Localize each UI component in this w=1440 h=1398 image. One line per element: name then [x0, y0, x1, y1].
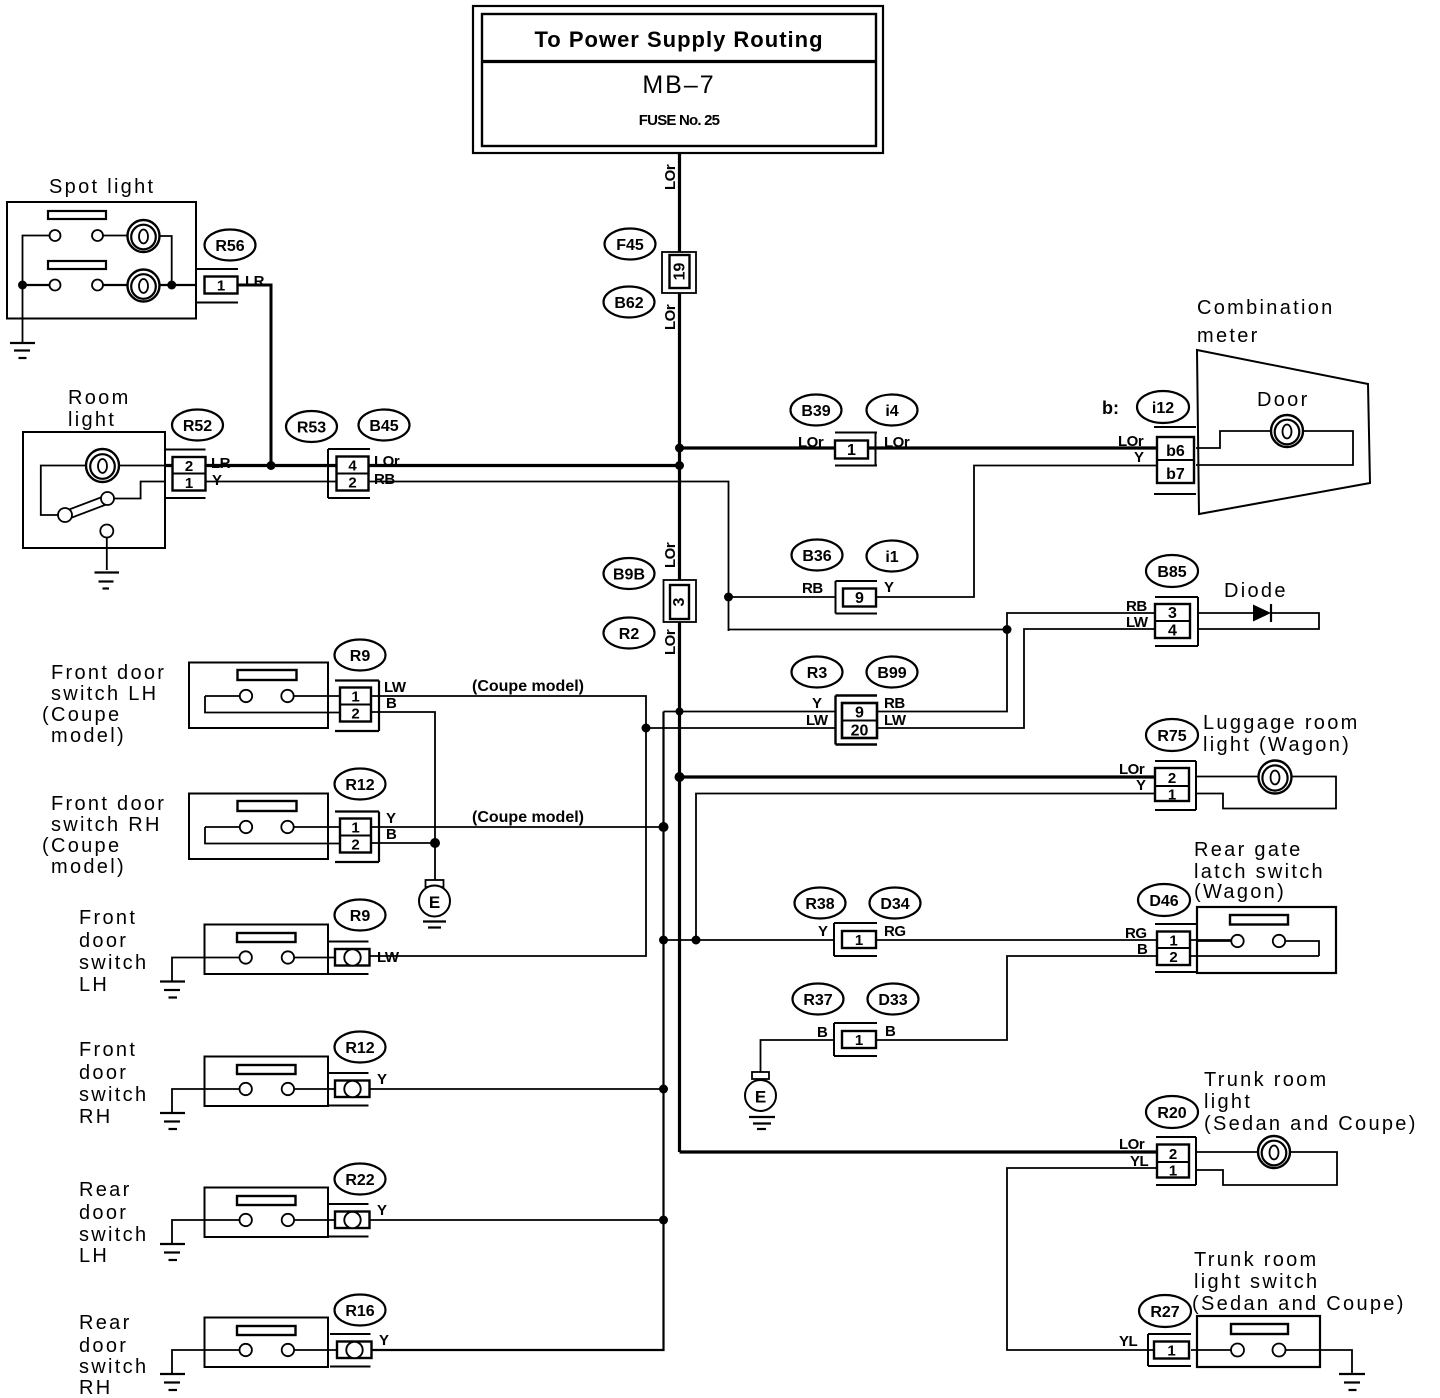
svg-text:LOr: LOr [1119, 761, 1145, 778]
svg-text:RB: RB [374, 471, 395, 488]
svg-text:FUSE No. 25: FUSE No. 25 [639, 112, 720, 129]
svg-text:Y: Y [818, 923, 828, 940]
connector oval D34 [870, 888, 921, 919]
ground symbol front RH [160, 1113, 185, 1129]
wire LOr thick branch to luggage room light R75 [680, 775, 1158, 778]
wire door lamp loop inside meter [1196, 431, 1353, 465]
connector R27 1 [1148, 1334, 1191, 1366]
svg-text:(Sedan and Coupe): (Sedan and Coupe) [1204, 1113, 1418, 1135]
label Front door switch RH (Coupe model) [42, 793, 166, 878]
connector oval R37 [793, 984, 844, 1015]
svg-text:light: light [1204, 1091, 1252, 1113]
connector oval i1 [867, 541, 918, 572]
svg-text:LW: LW [377, 949, 400, 966]
svg-text:RG: RG [884, 923, 906, 940]
svg-text:B: B [386, 695, 397, 712]
svg-text:(Coupe model): (Coupe model) [472, 809, 584, 826]
svg-text:B: B [386, 826, 397, 843]
connector oval B62 [604, 287, 655, 318]
connector oval R20 [1146, 1096, 1198, 1128]
svg-text:(Coupe: (Coupe [42, 835, 121, 857]
svg-text:(Wagon): (Wagon) [1194, 881, 1286, 903]
svg-text:Front door: Front door [51, 793, 166, 815]
svg-text:B99: B99 [877, 665, 906, 682]
svg-text:2: 2 [351, 837, 359, 854]
wire spot light lower row [23, 284, 197, 286]
wire B from R37/D33 to ground E [761, 1040, 836, 1072]
connector oval R27 [1139, 1295, 1191, 1327]
connector oval B45 [359, 410, 410, 441]
svg-text:i1: i1 [885, 549, 898, 566]
svg-text:2: 2 [1169, 1146, 1177, 1163]
svg-text:Door: Door [1257, 389, 1310, 411]
svg-text:20: 20 [851, 723, 869, 740]
junction node Y riser at lower RH row [659, 1085, 668, 1094]
svg-text:E: E [755, 1088, 766, 1107]
ground symbol front LH [160, 982, 185, 998]
connector oval B39 [791, 395, 842, 426]
connector oval R56 [205, 230, 256, 261]
wire B from D46 pin 2 to R37/D33 connector [877, 956, 1319, 1040]
svg-text:LOr: LOr [798, 434, 824, 451]
trunk room light switch box [1191, 1316, 1352, 1374]
ground symbol spot light [10, 343, 35, 358]
junction node spot light right [167, 281, 176, 290]
svg-text:1: 1 [351, 689, 359, 706]
svg-text:Y: Y [1136, 777, 1146, 794]
ground symbol rear RH [160, 1374, 185, 1390]
svg-text:Rear: Rear [79, 1312, 132, 1334]
junction node LW at pin 20 wire [642, 724, 651, 733]
svg-text:Spot light: Spot light [49, 176, 155, 198]
junction node Y branch riser at rear gate row [692, 936, 701, 945]
junction node RB at B85 riser [1003, 625, 1012, 634]
svg-text:YL: YL [1119, 1333, 1138, 1350]
connector R22 single pin [328, 1204, 370, 1237]
wire LOr thick branch left to room light [165, 464, 680, 467]
junction node trunk at Y wire crossing [676, 708, 684, 716]
svg-text:(Coupe model): (Coupe model) [472, 678, 584, 695]
svg-text:1: 1 [1169, 1163, 1177, 1180]
svg-text:Y: Y [386, 810, 396, 827]
svg-text:3: 3 [671, 597, 688, 606]
wire RB from R3/B99 pin 9 up to RB node [877, 630, 1007, 712]
svg-text:B: B [1137, 941, 1148, 958]
svg-text:switch: switch [79, 1356, 148, 1378]
junction node Y riser at rear gate row [659, 936, 668, 945]
svg-text:Y: Y [812, 695, 822, 712]
svg-text:R38: R38 [805, 896, 834, 913]
svg-text:door: door [79, 1202, 128, 1224]
svg-text:R53: R53 [297, 420, 326, 437]
svg-text:1: 1 [217, 278, 225, 295]
wire ground lead front LH [172, 958, 205, 982]
svg-text:2: 2 [185, 458, 193, 475]
svg-text:F45: F45 [616, 237, 644, 254]
svg-text:YL: YL [1130, 1153, 1149, 1170]
wire B coupe LH to ground riser [371, 712, 435, 843]
wire LOr thick branch to trunk room light R20 [680, 1150, 1158, 1153]
connector oval B99 [867, 657, 918, 688]
wire B coupe RH joins riser [371, 843, 435, 880]
label Rear door switch RH [79, 1312, 148, 1398]
rear door switch LH box [205, 1188, 337, 1238]
wire Y branch riser to luggage room light R75 pin 1 [696, 794, 1157, 941]
svg-text:b:: b: [1102, 398, 1119, 418]
ground E for R37/D33 [745, 1072, 776, 1129]
ground E coupe door switches [419, 880, 450, 928]
lamp spot light lower [128, 270, 160, 302]
svg-text:R20: R20 [1157, 1105, 1186, 1122]
svg-text:switch: switch [79, 1084, 148, 1106]
junction node RB at i1 connector [724, 593, 733, 602]
svg-text:Y: Y [884, 579, 894, 596]
svg-text:Room: Room [68, 387, 131, 409]
connector B85 diode pins 3/4 [1155, 597, 1198, 646]
wire Y riser connecting door switches [372, 712, 664, 1351]
lamp spot light upper [128, 220, 160, 252]
svg-text:Luggage room: Luggage room [1203, 712, 1360, 734]
label Rear gate latch switch (Wagon) [1194, 839, 1325, 903]
connector R12 single pin [328, 1073, 370, 1106]
svg-text:B85: B85 [1157, 564, 1186, 581]
combination meter outline [1197, 350, 1370, 514]
svg-text:Y: Y [377, 1202, 387, 1219]
svg-text:b6: b6 [1166, 443, 1185, 460]
svg-text:model): model) [51, 725, 126, 747]
connector B98/R2 3 on trunk [664, 580, 697, 622]
lamp room light [86, 449, 119, 482]
svg-text:(Coupe: (Coupe [42, 704, 121, 726]
diode symbol and loop back to pin 4 [1198, 604, 1319, 629]
connector oval R53 [286, 411, 337, 442]
label Front door switch LH (Coupe model) [42, 662, 166, 747]
svg-text:LW: LW [384, 679, 407, 696]
junction node B coupe wires [430, 838, 440, 848]
svg-text:MB–7: MB–7 [642, 71, 715, 99]
connector B39/i4 1 [835, 433, 877, 466]
connector oval R52 [172, 410, 223, 441]
wire ground lead rear RH [172, 1350, 205, 1374]
wire Y row to rear gate latch connector R38/D34 [664, 939, 836, 941]
svg-text:R22: R22 [345, 1172, 374, 1189]
svg-text:light switch: light switch [1194, 1271, 1319, 1293]
connector R20 pins 2/1 [1156, 1137, 1196, 1185]
ground symbol room light [95, 573, 120, 589]
spot light box [7, 202, 196, 319]
connector oval R9 coupe [335, 640, 386, 671]
svg-text:Trunk room: Trunk room [1204, 1069, 1329, 1091]
svg-text:LR: LR [211, 455, 231, 472]
svg-text:LW: LW [1126, 614, 1149, 631]
svg-text:B9B: B9B [613, 567, 645, 584]
label Luggage room light (Wagon) [1203, 712, 1360, 756]
label Front door switch RH [79, 1039, 148, 1128]
svg-text:2: 2 [1169, 949, 1177, 966]
wire Y coupe RH switch to riser [371, 826, 664, 828]
connector D46 pins 1/2 [1155, 924, 1197, 972]
trunk room light lamp loop [1196, 1152, 1337, 1185]
svg-text:2: 2 [1168, 770, 1176, 787]
svg-text:1: 1 [1168, 787, 1176, 804]
svg-text:B36: B36 [802, 548, 831, 565]
wire spot light ground lead [22, 285, 24, 342]
connector oval D33 [868, 984, 919, 1015]
svg-text:LW: LW [806, 712, 829, 729]
spot light terminal contacts upper [50, 230, 61, 241]
connector B45 pins 4/2 [328, 449, 370, 498]
svg-text:Rear gate: Rear gate [1194, 839, 1303, 861]
svg-text:R2: R2 [619, 626, 640, 643]
connector oval i4 [867, 395, 918, 426]
svg-text:LR: LR [245, 273, 265, 290]
svg-text:LOr: LOr [884, 434, 910, 451]
front door switch RH box [205, 1057, 337, 1107]
svg-text:LOr: LOr [662, 164, 679, 190]
svg-text:B45: B45 [369, 418, 398, 435]
connector oval i12 [1137, 391, 1189, 423]
svg-text:R52: R52 [183, 418, 212, 435]
connector oval R3 [792, 657, 843, 688]
connector oval B98 [604, 558, 655, 589]
svg-text:b7: b7 [1166, 466, 1185, 483]
svg-text:B39: B39 [801, 403, 830, 420]
wire Y rear door switch LH row [370, 1219, 664, 1221]
svg-text:switch RH: switch RH [51, 814, 162, 836]
wire LW from R3/B99 pin 20 to B85 diode pin 4 [877, 629, 1155, 728]
svg-text:D46: D46 [1149, 893, 1178, 910]
svg-text:4: 4 [1168, 623, 1177, 640]
connector i12 cells b6/b7 [1154, 427, 1196, 494]
rear door switch RH box [205, 1318, 339, 1368]
svg-text:1: 1 [351, 820, 359, 837]
connector oval R2 [604, 618, 655, 649]
connector R52 pins 2/1 [165, 450, 206, 499]
svg-text:B62: B62 [614, 295, 643, 312]
spot light lower actuator bar [48, 261, 106, 269]
label Rear door switch LH [79, 1179, 148, 1267]
svg-text:RH: RH [79, 1106, 113, 1128]
svg-text:switch: switch [79, 1224, 148, 1246]
svg-text:1: 1 [847, 442, 856, 459]
svg-text:LOr: LOr [1118, 433, 1144, 450]
svg-text:1: 1 [855, 932, 863, 949]
svg-text:door: door [79, 1062, 128, 1084]
svg-text:1: 1 [185, 475, 193, 492]
junction node trunk to meter branch [675, 444, 684, 453]
front door switch RH coupe box [189, 794, 340, 860]
svg-text:RB: RB [802, 580, 823, 597]
room light switch fixed contact [100, 525, 113, 538]
svg-text:RH: RH [79, 1377, 113, 1398]
svg-text:R12: R12 [345, 1040, 374, 1057]
ground symbol rear LH [160, 1244, 185, 1260]
wire room light switch to pin 1 [114, 482, 165, 499]
wire Y lower door switch RH row [370, 1088, 664, 1090]
svg-text:D34: D34 [880, 896, 909, 913]
wire Y room light R52 pin1 to B36 i1 connector RB side [206, 482, 729, 632]
connector oval R12 [335, 1032, 386, 1063]
connector R38/D34 1 [834, 923, 877, 956]
svg-text:R12: R12 [345, 777, 374, 794]
wire LOr trunk from fuse box down to trunk room light branch [678, 153, 681, 1152]
svg-text:switch LH: switch LH [51, 683, 158, 705]
wire Y into R3/B99 pin 9 crossing trunk [664, 711, 836, 713]
svg-text:Rear: Rear [79, 1179, 132, 1201]
wire RG from R38/D34 to rear gate latch switch D46 pin 1 [877, 939, 1231, 941]
svg-text:light: light [68, 409, 116, 431]
svg-text:LOr: LOr [374, 453, 400, 470]
svg-text:R27: R27 [1150, 1304, 1179, 1321]
wire ground lead front RH [172, 1089, 205, 1113]
connector oval R9 [335, 900, 386, 931]
lamp Door in combination meter [1271, 415, 1303, 447]
label Trunk room light switch (Sedan and Coupe) [1192, 1249, 1406, 1315]
svg-text:(Sedan and Coupe): (Sedan and Coupe) [1192, 1293, 1406, 1315]
svg-text:R37: R37 [803, 992, 832, 1009]
spot light upper actuator bar [48, 211, 106, 219]
svg-text:1: 1 [855, 1032, 863, 1049]
connector oval F45 [605, 229, 656, 260]
room light box [23, 432, 165, 548]
wire spot light upper row [23, 236, 172, 286]
svg-text:switch: switch [79, 952, 148, 974]
connector R3/B99 9/20 [836, 696, 878, 745]
svg-text:i12: i12 [1152, 400, 1174, 417]
wire LOr thick branch right to combination meter [680, 446, 1158, 449]
wire Y from B36 i1 pin 9 to combination meter b7 [877, 466, 1157, 598]
connector R56 1 [197, 269, 239, 303]
svg-text:meter: meter [1197, 325, 1260, 347]
svg-text:9: 9 [855, 590, 864, 607]
rear gate latch switch box [1197, 907, 1336, 973]
svg-text:R3: R3 [807, 665, 828, 682]
svg-text:LOr: LOr [1119, 1136, 1145, 1153]
wire ground lead rear LH [172, 1220, 205, 1244]
connector R16 single pin [330, 1334, 372, 1367]
luggage room light lamp loop [1196, 777, 1336, 809]
front door switch LH coupe box [189, 663, 340, 729]
label Trunk room light (Sedan and Coupe) [1204, 1069, 1418, 1135]
svg-text:LOr: LOr [662, 542, 679, 568]
svg-text:LW: LW [884, 712, 907, 729]
svg-text:latch switch: latch switch [1194, 861, 1325, 883]
wire RB from B36 junction to B85 diode pin 3 [729, 597, 1156, 630]
svg-text:9: 9 [855, 705, 864, 722]
svg-text:LOr: LOr [662, 629, 679, 655]
connector R9 single pin [328, 942, 370, 975]
svg-text:RB: RB [1126, 598, 1147, 615]
svg-text:light (Wagon): light (Wagon) [1203, 734, 1351, 756]
junction node trunk to room light branch [675, 461, 684, 470]
connector oval R22 [335, 1164, 386, 1195]
lamp luggage room light [1259, 761, 1292, 794]
connector R9 coupe pins 1/2 [335, 681, 379, 732]
svg-text:1: 1 [1169, 933, 1177, 950]
svg-text:2: 2 [348, 475, 356, 492]
ground symbol trunk room light switch [1339, 1374, 1365, 1390]
svg-text:Diode: Diode [1224, 580, 1288, 602]
connector F45/B62 19 on trunk [662, 252, 696, 293]
wire YL from R20 pin 1 down to R27 [1007, 1168, 1157, 1350]
svg-text:Front door: Front door [51, 662, 166, 684]
svg-text:B: B [817, 1024, 828, 1041]
connector oval R16 [335, 1295, 386, 1326]
svg-text:LOr: LOr [662, 304, 679, 330]
svg-text:R75: R75 [1157, 728, 1186, 745]
front door switch LH box [205, 925, 337, 975]
svg-text:19: 19 [672, 263, 689, 281]
junction node Y riser at coupe RH wire [659, 822, 669, 832]
svg-text:R9: R9 [350, 908, 371, 925]
svg-text:3: 3 [1168, 605, 1177, 622]
svg-text:2: 2 [351, 706, 359, 723]
svg-text:R56: R56 [215, 238, 244, 255]
svg-text:Y: Y [379, 1332, 389, 1349]
connector R37/D33 1 [834, 1023, 877, 1056]
junction node LR wire joins room light feed [267, 461, 276, 470]
svg-text:i4: i4 [885, 403, 898, 420]
svg-text:LH: LH [79, 1245, 109, 1267]
wire LW net left: coupe LH switch to R3/B99 pin 20 and lower LH switch [370, 696, 836, 956]
svg-text:Y: Y [377, 1071, 387, 1088]
svg-text:RB: RB [884, 695, 905, 712]
junction node spot light left [18, 281, 27, 290]
svg-text:door: door [79, 1335, 128, 1357]
wire LR from spot light connector down to room light feed [237, 285, 271, 466]
connector oval R12 coupe [335, 769, 386, 800]
connector R12 coupe pins 1/2 [335, 812, 379, 863]
power supply routing box [473, 6, 883, 153]
svg-text:Y: Y [1134, 449, 1144, 466]
connector oval B85 [1146, 555, 1198, 587]
svg-text:Y: Y [212, 472, 222, 489]
connector R75 pins 2/1 [1155, 761, 1196, 810]
svg-text:R16: R16 [345, 1303, 374, 1320]
svg-text:Front: Front [79, 1039, 137, 1061]
svg-text:Front: Front [79, 907, 137, 929]
connector oval D46 [1138, 884, 1190, 916]
room light switch arm [58, 492, 114, 522]
svg-text:Combination: Combination [1197, 297, 1335, 319]
svg-text:To Power Supply Routing: To Power Supply Routing [534, 27, 823, 52]
connector oval R75 [1146, 719, 1198, 751]
spot light terminal contacts lower [50, 280, 61, 291]
connector oval R38 [795, 888, 846, 919]
connector B36/i1 9 [836, 581, 878, 614]
wire room light lamp row [41, 466, 165, 516]
svg-text:door: door [79, 930, 128, 952]
svg-text:D33: D33 [878, 992, 907, 1009]
svg-text:R9: R9 [350, 648, 371, 665]
junction node Y riser at rear LH row [659, 1216, 668, 1225]
svg-text:Trunk room: Trunk room [1194, 1249, 1319, 1271]
connector oval B36 [792, 540, 843, 571]
svg-text:RG: RG [1125, 925, 1147, 942]
svg-text:4: 4 [348, 458, 357, 475]
svg-text:1: 1 [1167, 1343, 1175, 1360]
svg-text:model): model) [51, 856, 126, 878]
label Front door switch LH [79, 907, 148, 996]
lamp trunk room light [1258, 1136, 1290, 1168]
svg-text:B: B [885, 1023, 896, 1040]
svg-text:E: E [429, 893, 440, 912]
wire room light switch ground lead [106, 538, 108, 571]
svg-text:LH: LH [79, 974, 109, 996]
junction node trunk to luggage light branch [675, 772, 685, 782]
